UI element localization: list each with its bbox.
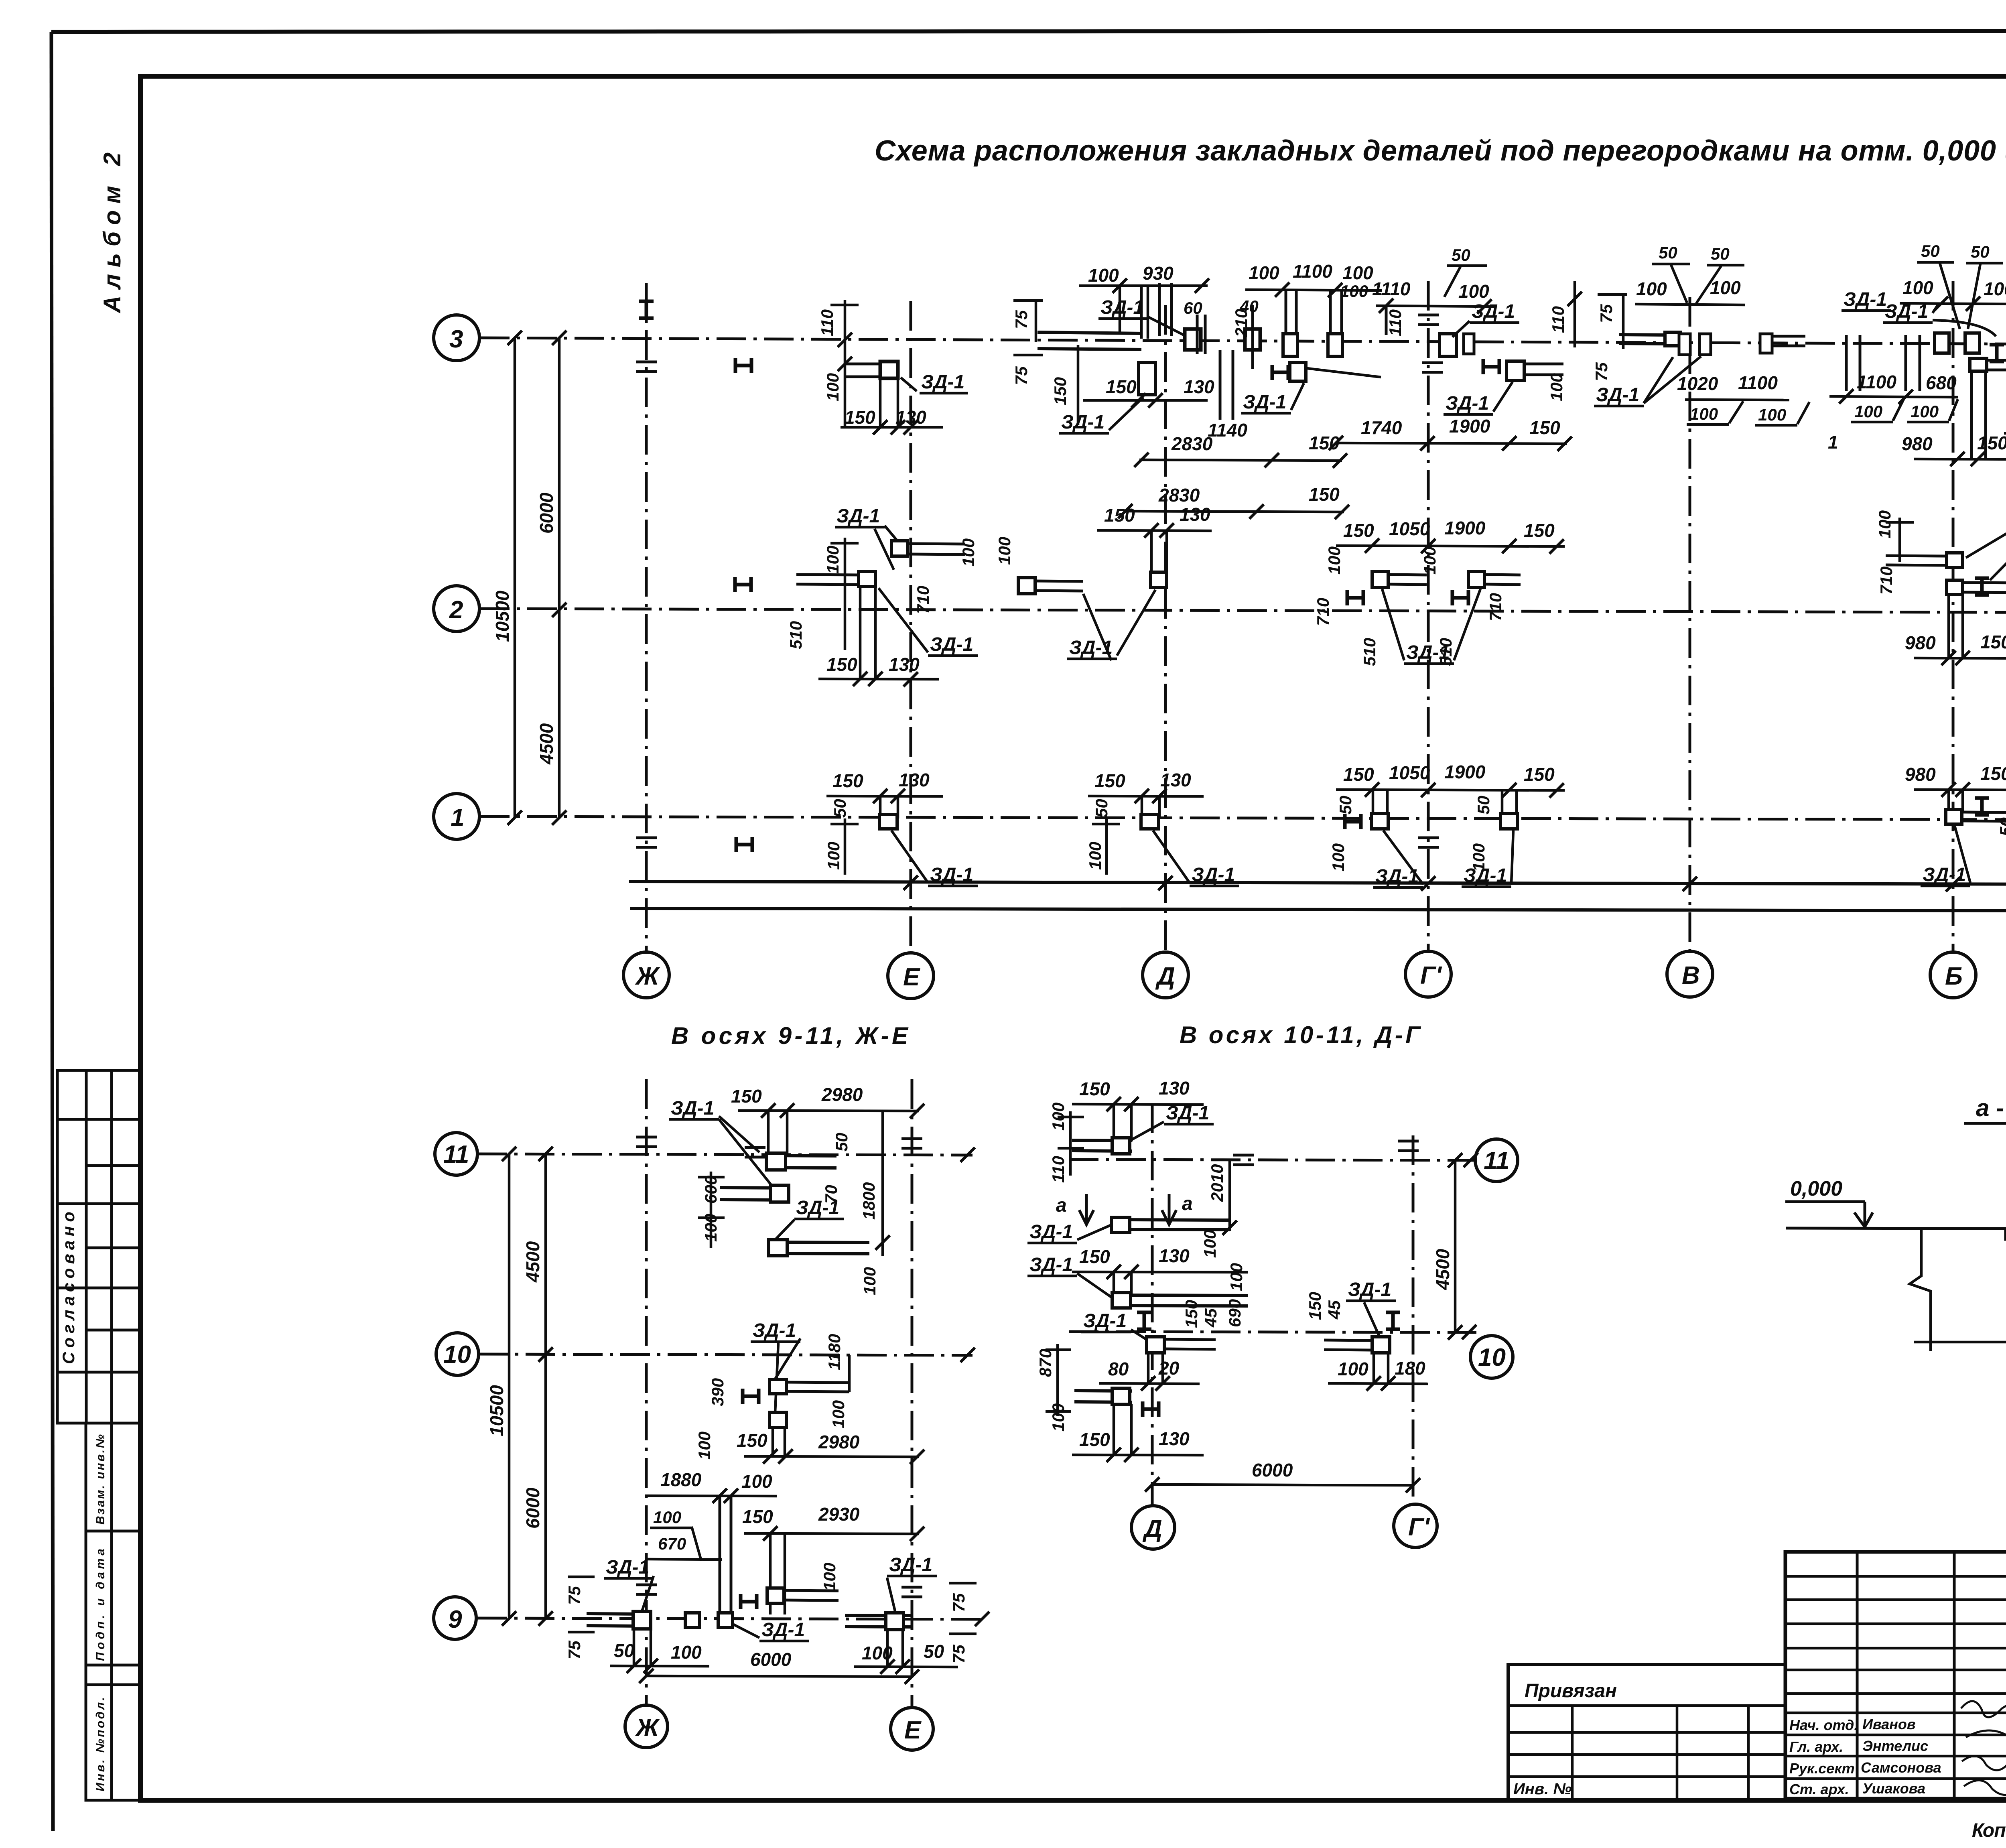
- plates on axis 9: [685, 1613, 700, 1627]
- svg-text:150: 150: [1980, 763, 2006, 784]
- svg-text:2830: 2830: [1158, 485, 1200, 506]
- left grid verticals: [1856, 1552, 1859, 1799]
- joint tick at Г1: [1418, 838, 1439, 847]
- svg-text:1140: 1140: [1208, 420, 1247, 441]
- right side at Е: label ЗД-1: [887, 1554, 937, 1613]
- svg-text:510: 510: [1360, 638, 1379, 666]
- lower plate with bar to the left: [859, 571, 875, 587]
- 75 lower: [1012, 355, 1043, 385]
- svg-text:50: 50: [1971, 242, 1990, 261]
- column Д sub2: [1151, 1103, 1154, 1505]
- svg-text:150: 150: [1529, 417, 1560, 438]
- plates flanking В: [1679, 334, 1690, 355]
- circle 11 sub2: [1475, 1139, 1518, 1182]
- strip on axis 11: [768, 1156, 837, 1168]
- svg-text:100: 100: [1049, 1403, 1068, 1432]
- svg-text:100: 100: [1200, 1230, 1219, 1258]
- axis circle 2: [434, 586, 479, 632]
- svg-text:Согласовано: Согласовано: [59, 1212, 78, 1364]
- column line Г1: [1427, 281, 1430, 952]
- dims 100 100 flags below: [1687, 401, 1743, 424]
- svg-text:В: В: [1682, 962, 1700, 989]
- svg-text:130: 130: [899, 770, 930, 790]
- svg-text:100: 100: [1854, 402, 1882, 421]
- joint ticks sub1: [636, 1137, 657, 1147]
- svg-text:75: 75: [565, 1641, 584, 1659]
- svg-text:Альбом 2: Альбом 2: [99, 152, 126, 314]
- svg-text:100: 100: [1227, 1263, 1246, 1291]
- svg-text:ЗД-1: ЗД-1: [1029, 1254, 1073, 1275]
- partition double line up: [1141, 287, 1148, 339]
- partition pair vertical: [720, 1496, 731, 1614]
- а section arrows: [1079, 1194, 1094, 1225]
- outer frame top: [51, 31, 2006, 32]
- label ЗД-1 at E3: [901, 372, 968, 393]
- svg-text:100: 100: [1086, 842, 1105, 870]
- В cluster: 75 rotated: [1597, 294, 1627, 349]
- svg-text:75: 75: [1592, 362, 1611, 381]
- svg-text:980: 980: [1905, 632, 1936, 653]
- svg-text:10: 10: [1478, 1344, 1506, 1371]
- svg-text:150: 150: [742, 1506, 773, 1527]
- svg-text:180: 180: [1395, 1358, 1425, 1379]
- svg-text:100: 100: [1875, 510, 1894, 538]
- svg-text:45: 45: [1325, 1300, 1344, 1320]
- svg-text:130: 130: [1159, 1245, 1190, 1266]
- svg-text:100: 100: [671, 1642, 702, 1663]
- wall strip on axis 3 between Е and Д: [1038, 332, 1141, 349]
- svg-text:1900: 1900: [1444, 518, 1486, 538]
- plates: [1371, 814, 1388, 829]
- svg-text:ЗД-1: ЗД-1: [1083, 1310, 1127, 1332]
- circle Ж bottom sub1: [625, 1705, 668, 1748]
- lower strip with plate: [1074, 1391, 1132, 1402]
- svg-text:Привязан: Привязан: [1525, 1680, 1617, 1702]
- section title: [1964, 1095, 2006, 1123]
- svg-text:ЗД-1: ЗД-1: [837, 506, 880, 527]
- label ЗД-1: [1346, 1279, 1396, 1338]
- partition pair 2: [1330, 290, 1342, 356]
- svg-text:50: 50: [1711, 244, 1730, 263]
- svg-text:11: 11: [1484, 1147, 1509, 1175]
- H symbol left: [735, 577, 751, 592]
- 100 flag: [650, 1508, 701, 1561]
- svg-text:ЗД-1: ЗД-1: [930, 634, 973, 655]
- svg-text:1050: 1050: [1389, 762, 1430, 783]
- svg-text:Ст. арх.: Ст. арх.: [1789, 1781, 1849, 1797]
- svg-text:100: 100: [829, 1400, 848, 1428]
- svg-text:1020: 1020: [1677, 373, 1718, 394]
- outer frame left: [51, 32, 53, 1831]
- svg-text:110: 110: [2004, 308, 2006, 335]
- svg-text:ЗД-1: ЗД-1: [930, 864, 973, 885]
- svg-text:150: 150: [1977, 433, 2006, 453]
- column line В: [1689, 297, 1691, 952]
- svg-text:100: 100: [695, 1432, 714, 1460]
- label ЗД-1: [1098, 297, 1197, 342]
- I symbol above plate: [1137, 1312, 1151, 1329]
- svg-text:100: 100: [820, 1563, 839, 1591]
- svg-text:50: 50: [924, 1641, 944, 1662]
- H symbols: [1347, 590, 1363, 605]
- svg-text:75: 75: [1597, 304, 1616, 323]
- svg-text:130: 130: [889, 654, 920, 675]
- label ЗД-1: [891, 831, 978, 886]
- axis 2: [480, 609, 2006, 613]
- plates with bars: [1372, 571, 1388, 587]
- svg-text:0,000: 0,000: [1790, 1177, 1842, 1200]
- svg-text:10500: 10500: [492, 591, 513, 642]
- label ЗД-1 below: [1059, 397, 1143, 433]
- svg-text:1100: 1100: [1293, 261, 1332, 282]
- svg-text:4500: 4500: [1432, 1249, 1453, 1290]
- svg-text:Г': Г': [1420, 962, 1442, 989]
- joint tick below Г1: [1422, 363, 1443, 372]
- svg-text:75: 75: [565, 1586, 584, 1605]
- svg-text:50: 50: [1659, 243, 1677, 262]
- svg-text:130: 130: [1159, 1428, 1190, 1449]
- svg-text:150: 150: [826, 654, 857, 675]
- svg-text:870: 870: [1036, 1349, 1055, 1377]
- svg-text:Рук.сект: Рук.сект: [1789, 1760, 1855, 1777]
- inventory margin table: [86, 1423, 140, 1800]
- axis 9: [477, 1618, 987, 1619]
- svg-text:Копировал Выгриянова: Копировал Выгриянова: [1972, 1820, 2006, 1841]
- labels ЗД-1 pair: [1842, 289, 1891, 311]
- plate with bar (left strip): [1018, 578, 1035, 594]
- label ЗД-1: [1027, 1254, 1115, 1300]
- svg-text:В осях 10-11, Д-Г: В осях 10-11, Д-Г: [1180, 1021, 1421, 1048]
- label ЗД-1: [1444, 382, 1513, 414]
- strip at Е: [845, 1615, 912, 1627]
- partition bar below axis at Д: [1220, 350, 1233, 420]
- svg-text:ЗД-1: ЗД-1: [753, 1320, 796, 1341]
- svg-text:75: 75: [949, 1645, 968, 1663]
- svg-text:690: 690: [1225, 1299, 1244, 1327]
- axis 11: [477, 1154, 973, 1155]
- svg-text:ЗД-1: ЗД-1: [1596, 384, 1639, 406]
- svg-text:Нач. отд.: Нач. отд.: [1789, 1717, 1858, 1733]
- plate with bar: [1946, 810, 1962, 824]
- svg-text:1740: 1740: [1361, 417, 1402, 438]
- svg-text:100: 100: [1690, 404, 1718, 423]
- floor line: [1786, 1228, 2006, 1229]
- svg-text:130: 130: [1160, 770, 1191, 790]
- partition pair up left: [1286, 290, 1296, 356]
- svg-text:3: 3: [449, 325, 463, 353]
- svg-text:100: 100: [860, 1267, 879, 1295]
- 110 rotated: [2004, 282, 2006, 347]
- svg-text:1100: 1100: [1738, 372, 1778, 393]
- axis circle 1: [434, 794, 479, 839]
- joint ticks sub2: [1233, 1155, 1254, 1165]
- partition bars left of Б: [1846, 335, 1860, 391]
- svg-text:Е: Е: [903, 963, 920, 991]
- svg-text:100: 100: [1636, 278, 1667, 299]
- svg-text:100: 100: [995, 537, 1014, 565]
- svg-text:4500: 4500: [522, 1241, 543, 1283]
- svg-text:Схема расположения закладных д: Схема расположения закладных деталей под…: [875, 135, 2006, 167]
- svg-text:75: 75: [949, 1593, 968, 1612]
- svg-text:2: 2: [449, 596, 463, 624]
- svg-text:980: 980: [1902, 433, 1933, 454]
- I symbol right of Б: [1990, 345, 2004, 361]
- label ЗД-1: [1382, 589, 1480, 664]
- plate at Е: [879, 814, 897, 829]
- svg-text:ЗД-1: ЗД-1: [1844, 289, 1887, 310]
- svg-text:1880: 1880: [660, 1469, 702, 1490]
- svg-text:100: 100: [1902, 277, 1933, 298]
- svg-text:150: 150: [1051, 377, 1070, 405]
- axis circle 3: [434, 315, 479, 361]
- svg-text:2980: 2980: [818, 1432, 860, 1452]
- svg-text:4500: 4500: [536, 723, 557, 765]
- cluster between Е and Д : 75 cap top: [1012, 301, 1043, 342]
- svg-text:50: 50: [1921, 242, 1940, 260]
- svg-text:110: 110: [818, 309, 837, 336]
- joint ticks on Ж below axis 3: [636, 362, 657, 372]
- 75 rotated pair right: [949, 1583, 977, 1612]
- label ЗД-1 left: [1027, 1221, 1112, 1243]
- strip left of Ж: [587, 1614, 646, 1626]
- label ЗД-1 right: [1452, 301, 1519, 337]
- svg-text:100: 100: [1420, 546, 1439, 575]
- svg-text:100: 100: [1088, 265, 1119, 286]
- break lines: [1910, 1229, 2006, 1351]
- svg-text:150: 150: [1079, 1078, 1110, 1099]
- svg-text:80: 80: [1108, 1359, 1129, 1379]
- svg-text:50: 50: [614, 1640, 635, 1661]
- partition line at 1110 center: [1385, 305, 1388, 335]
- svg-text:Самсонова: Самсонова: [1861, 1759, 1941, 1776]
- circle 10 sub2: [1470, 1336, 1513, 1378]
- svg-text:710: 710: [914, 586, 932, 614]
- svg-text:ЗД-1: ЗД-1: [1464, 865, 1507, 886]
- plate 1 with bar right: [770, 1379, 786, 1394]
- svg-text:100: 100: [1340, 282, 1368, 301]
- svg-text:Иванов: Иванов: [1862, 1716, 1916, 1732]
- svg-text:Взам. инв.№: Взам. инв.№: [94, 1434, 107, 1525]
- svg-text:1900: 1900: [1449, 416, 1490, 437]
- column Ж sub1: [645, 1079, 648, 1705]
- svg-text:Энтелис: Энтелис: [1862, 1738, 1928, 1754]
- plate 2: [770, 1412, 786, 1428]
- label ЗД-1: [2004, 412, 2006, 433]
- plate with bar below Б: [1970, 358, 1987, 371]
- embedded plate ЗД-1 at E3: [880, 361, 898, 378]
- svg-text:11: 11: [443, 1141, 469, 1168]
- node E3 dim line vertical: [830, 300, 859, 427]
- svg-text:50: 50: [1336, 796, 1355, 814]
- svg-text:1: 1: [451, 804, 464, 832]
- column Г sub2: [1412, 1135, 1415, 1505]
- svg-text:100: 100: [741, 1471, 772, 1492]
- wall strip left of В: [1619, 335, 1669, 344]
- svg-text:В осях 9-11, Ж-Е: В осях 9-11, Ж-Е: [671, 1022, 909, 1049]
- svg-text:10500: 10500: [486, 1385, 507, 1436]
- column circle Г1: [1405, 951, 1451, 997]
- label ЗД-1: [1921, 826, 1970, 886]
- strip 2 with plate: [720, 1188, 788, 1200]
- svg-text:100: 100: [823, 373, 842, 401]
- svg-text:210: 210: [1232, 309, 1251, 337]
- partition pair above axis at Д: [1159, 283, 1172, 336]
- svg-text:50: 50: [1996, 817, 2006, 836]
- embedded strip at E3: [845, 364, 897, 377]
- axis 10 sub2: [1069, 1332, 1476, 1332]
- I-beam symbol right of Ж: [735, 358, 751, 373]
- H + plate + bar right of Г1: [1483, 359, 1499, 374]
- svg-text:150: 150: [845, 407, 875, 428]
- circle 10: [436, 1333, 479, 1375]
- svg-text:50: 50: [1452, 246, 1470, 264]
- label ЗД-7: [1966, 512, 2006, 580]
- svg-text:150: 150: [1309, 484, 1340, 505]
- axis 1: [480, 816, 2006, 820]
- svg-text:45: 45: [1201, 1308, 1220, 1328]
- svg-text:510: 510: [786, 621, 805, 649]
- T tick on Г1 above axis: [1418, 315, 1439, 325]
- svg-text:ЗД-1: ЗД-1: [1192, 864, 1235, 885]
- svg-text:Инв. №: Инв. №: [1513, 1780, 1572, 1798]
- svg-text:930: 930: [1143, 263, 1174, 284]
- svg-text:710: 710: [1486, 593, 1505, 621]
- svg-text:ЗД-1: ЗД-1: [671, 1098, 714, 1119]
- svg-text:670: 670: [658, 1534, 686, 1553]
- svg-text:ЗД-1: ЗД-1: [1923, 864, 1966, 885]
- svg-text:а: а: [1056, 1195, 1067, 1216]
- svg-text:150: 150: [731, 1086, 762, 1107]
- svg-text:6000: 6000: [1252, 1460, 1293, 1480]
- svg-text:1100: 1100: [1857, 372, 1896, 392]
- label ЗД-1 below: [1067, 590, 1155, 660]
- svg-text:100: 100: [824, 842, 843, 870]
- 110 rotated right: [1549, 281, 1582, 347]
- svg-text:ЗД-1: ЗД-1: [796, 1197, 839, 1218]
- svg-text:2930: 2930: [818, 1504, 860, 1525]
- svg-text:9: 9: [448, 1606, 462, 1633]
- H symbol: [743, 1389, 759, 1404]
- svg-text:680: 680: [1926, 372, 1957, 393]
- strip above axis 11: [1072, 1140, 1132, 1151]
- left grid rows: [1785, 1576, 2006, 1779]
- svg-text:150: 150: [1104, 505, 1135, 526]
- column line Б: [1952, 281, 1955, 952]
- svg-text:а: а: [1182, 1193, 1193, 1214]
- svg-text:100: 100: [653, 1508, 681, 1527]
- label ЗД-1 left: [604, 1557, 654, 1611]
- joint ticks on Ж: [636, 838, 657, 847]
- column circle Б: [1930, 952, 1976, 998]
- column line Д: [1164, 305, 1167, 952]
- svg-text:150: 150: [832, 770, 863, 791]
- svg-text:ЗД-1: ЗД-1: [1446, 393, 1489, 414]
- svg-text:1180: 1180: [825, 1334, 844, 1370]
- circle Г sub2: [1394, 1504, 1437, 1547]
- svg-text:710: 710: [1314, 598, 1332, 626]
- label ЗД-1: [728, 1619, 809, 1641]
- svg-text:6000: 6000: [522, 1487, 543, 1529]
- svg-text:75: 75: [1012, 366, 1031, 385]
- I-beam column symbol at Ж: [639, 301, 654, 318]
- svg-text:100: 100: [1342, 262, 1373, 283]
- wall strip below plan: [629, 881, 2006, 911]
- plate with bar 2: [1947, 580, 1963, 595]
- plate with bar left: [1947, 553, 1963, 567]
- svg-text:ЗД-1: ЗД-1: [1472, 301, 1515, 322]
- label ЗД-1 top: [669, 1098, 773, 1187]
- svg-text:110: 110: [1049, 1156, 1068, 1183]
- I symbol: [1975, 578, 1989, 595]
- svg-text:Ж: Ж: [635, 963, 660, 990]
- svg-text:150: 150: [1343, 764, 1374, 785]
- axis 10: [478, 1354, 973, 1355]
- 50 flag: [1444, 246, 1487, 297]
- svg-text:ЗД-1: ЗД-1: [1100, 297, 1144, 318]
- plates at Г1: [1440, 334, 1456, 356]
- svg-text:150: 150: [1079, 1429, 1110, 1450]
- svg-text:Ушакова: Ушакова: [1862, 1780, 1925, 1797]
- column Е sub1: [911, 1079, 914, 1708]
- column line Е: [910, 301, 912, 952]
- svg-text:ЗД-1: ЗД-1: [761, 1619, 805, 1641]
- svg-text:100: 100: [1984, 278, 2006, 299]
- column circle Д: [1143, 952, 1188, 998]
- signatures: [1961, 1701, 2006, 1795]
- strip 2: [1114, 1220, 1230, 1230]
- circle Д sub2: [1131, 1506, 1175, 1549]
- embedded plate on axis: [1283, 334, 1297, 356]
- svg-text:6000: 6000: [536, 492, 557, 534]
- labels ЗД-1: [1373, 831, 1423, 887]
- upper plate with bar at Е: [891, 541, 908, 556]
- plates flanking Б: [1935, 333, 1949, 353]
- svg-text:150: 150: [1094, 770, 1125, 791]
- label ЗД-1 below В: [1594, 356, 1701, 406]
- svg-text:100: 100: [1710, 277, 1741, 298]
- svg-text:60: 60: [1184, 299, 1202, 317]
- svg-text:ЗД-1: ЗД-1: [1166, 1103, 1209, 1124]
- svg-text:50: 50: [1474, 796, 1493, 814]
- svg-text:Ж: Ж: [635, 1714, 660, 1742]
- svg-text:50: 50: [830, 799, 849, 818]
- svg-text:ЗД-1: ЗД-1: [889, 1554, 932, 1576]
- svg-text:2010: 2010: [1208, 1164, 1226, 1202]
- column circle Ж: [623, 952, 669, 998]
- svg-text:150: 150: [1524, 764, 1555, 785]
- svg-text:2830: 2830: [1171, 433, 1213, 454]
- svg-text:Д: Д: [1142, 1515, 1162, 1543]
- svg-text:1900: 1900: [1444, 762, 1486, 782]
- svg-text:10: 10: [443, 1341, 471, 1369]
- svg-text:100: 100: [1338, 1359, 1368, 1379]
- svg-text:150: 150: [1980, 632, 2006, 652]
- svg-text:130: 130: [1159, 1078, 1190, 1099]
- svg-text:100: 100: [1547, 373, 1566, 401]
- dim 210 rotated: [1232, 305, 1253, 369]
- label ЗД-1: [751, 1320, 800, 1412]
- svg-text:ЗД-1: ЗД-1: [1061, 412, 1105, 433]
- svg-text:130: 130: [1184, 376, 1214, 397]
- dims 100 100 flags: [1851, 399, 1904, 422]
- plate at Д on axis: [1151, 572, 1167, 587]
- svg-text:2980: 2980: [821, 1084, 863, 1105]
- strip 3 long: [1115, 1295, 1248, 1306]
- svg-text:Е: Е: [904, 1716, 922, 1744]
- embedded plate: [1185, 329, 1201, 350]
- svg-text:100: 100: [1758, 405, 1786, 424]
- svg-text:100: 100: [959, 538, 978, 567]
